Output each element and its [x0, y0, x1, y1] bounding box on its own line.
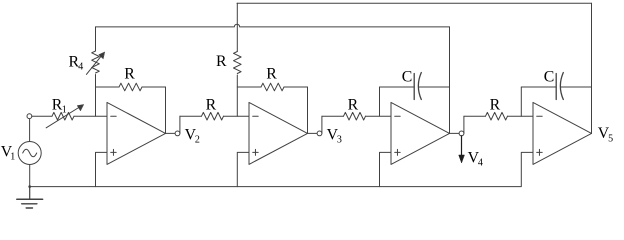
label V3: [327, 127, 342, 146]
svg-text:3: 3: [337, 135, 342, 146]
node source (input terminal): [27, 114, 32, 119]
resistor R (U4 input): [486, 112, 508, 120]
label C (U3 feedback): [402, 68, 413, 85]
label C (U4 feedback): [544, 68, 555, 85]
wire R1 to op-amp U1 minus input: [74, 115, 107, 117]
bottom rail wire: [30, 186, 521, 188]
wire U4 summing node tap: [520, 87, 522, 116]
capacitor C (U3 feedback): [380, 73, 450, 100]
svg-text:R: R: [216, 53, 227, 70]
wire node to R1: [32, 115, 52, 117]
label R1: [52, 97, 67, 116]
svg-text:R: R: [490, 97, 501, 114]
wire R to op-amp U2 minus input: [224, 115, 250, 117]
svg-text:R: R: [206, 97, 217, 114]
label R (U2 feedback): [266, 66, 277, 83]
svg-text:1: 1: [10, 151, 15, 162]
voltage source V1: [18, 142, 41, 165]
resistor R (vertical, from outer rail to U2 summing node): [234, 3, 242, 116]
wire U3 plus input to bottom rail: [380, 152, 392, 186]
op-amp U4: [533, 102, 592, 164]
svg-text:C: C: [402, 68, 413, 85]
capacitor C (U4 feedback): [521, 73, 591, 100]
svg-text:R: R: [266, 66, 277, 83]
wire U3 summing node tap: [379, 87, 381, 116]
wire V2 to R (U2 input): [180, 115, 202, 117]
wire source bottom to bottom rail: [29, 165, 31, 187]
svg-text:1: 1: [62, 105, 67, 116]
label V2: [185, 127, 200, 146]
svg-text:R: R: [124, 66, 135, 83]
wire inner rail down through U3 feedback to output: [449, 27, 451, 133]
label R (U4 input): [490, 97, 501, 114]
wire V4 to R (U4 input): [464, 115, 486, 117]
op-amp U1: [107, 102, 166, 164]
wire outer rail down through U4 feedback to output: [591, 3, 593, 133]
op-amp U2 feedback resistor R: [237, 83, 307, 91]
wire U4 plus input to bottom rail: [521, 152, 533, 186]
label V5: [598, 125, 613, 144]
outer top rail wire (U4 output feedback to R): [237, 2, 592, 4]
inner top rail wire (U3 output feedback to R4) with hop at x=237: [96, 24, 450, 27]
op-amp U2: [249, 102, 308, 164]
node V4: [459, 131, 464, 136]
svg-text:C: C: [544, 68, 555, 85]
resistor R (U2 input): [202, 112, 224, 120]
junction dot at source/rail: [28, 185, 31, 188]
node V3: [317, 131, 322, 136]
svg-text:4: 4: [478, 157, 483, 168]
wire U3 output: [450, 116, 464, 133]
label R (U2 input): [206, 97, 217, 114]
label R4: [69, 54, 84, 73]
wire U2 feedback down to output: [307, 87, 309, 133]
svg-text:R: R: [348, 97, 359, 114]
ground: [17, 187, 43, 208]
label R (vertical): [216, 53, 227, 70]
wire V3 to R (U3 input): [322, 115, 344, 117]
wire R to op-amp U4 minus input: [508, 115, 534, 117]
label R (U3 input): [348, 97, 359, 114]
arrow V4 (output reference): [459, 136, 465, 163]
op-amp U1 feedback resistor R: [96, 83, 166, 91]
node V2: [175, 131, 180, 136]
wire U1 plus input to bottom rail: [96, 152, 108, 186]
resistor R (U3 input): [344, 112, 366, 120]
resistor R4 (variable, vertical): [86, 27, 104, 116]
svg-text:5: 5: [608, 133, 613, 144]
op-amp U3: [391, 102, 450, 164]
wire U2 output: [308, 116, 322, 133]
resistor R1 (variable): [46, 105, 83, 128]
label V4: [468, 149, 483, 168]
wire U2 plus input to bottom rail: [237, 152, 249, 186]
svg-text:4: 4: [78, 62, 83, 73]
svg-text:2: 2: [195, 135, 200, 146]
wire U1 output: [166, 116, 180, 133]
wire source top to input node: [29, 119, 31, 142]
wire U1 feedback down to output: [165, 87, 167, 133]
wire R to op-amp U3 minus input: [366, 115, 392, 117]
label R (U1 feedback): [124, 66, 135, 83]
label V1: [1, 143, 15, 162]
